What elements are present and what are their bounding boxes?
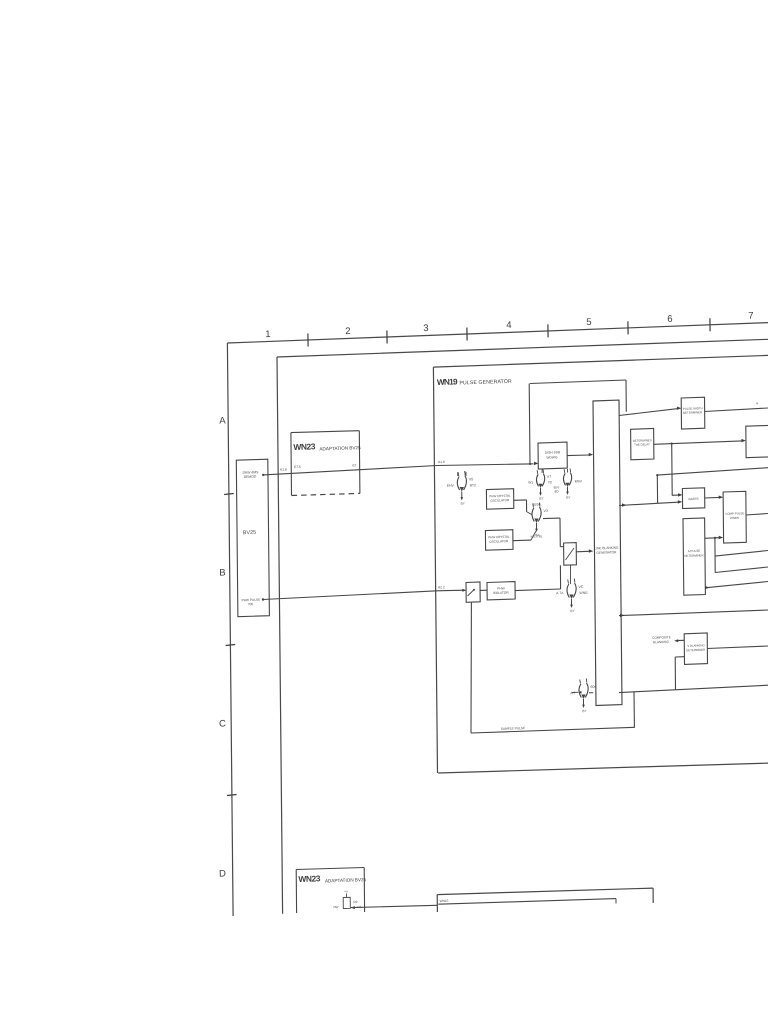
svg-text:3: 3	[423, 323, 429, 334]
svg-text:DETERMINER: DETERMINER	[686, 648, 705, 653]
svg-text:BV25: BV25	[243, 530, 256, 536]
svg-text:KTL/TBL: KTL/TBL	[530, 534, 542, 538]
svg-text:4: 4	[506, 320, 512, 331]
svg-text:SAMPLE PULSE: SAMPLE PULSE	[501, 726, 525, 731]
svg-text:1: 1	[265, 329, 271, 340]
svg-text:GENERATOR: GENERATOR	[596, 550, 617, 555]
svg-text:W1: W1	[528, 480, 533, 484]
svg-text:B: B	[219, 567, 226, 578]
svg-text:WNDR: WNDR	[730, 516, 739, 520]
svg-text:C: C	[219, 718, 226, 729]
svg-text:WDWG: WDWG	[546, 455, 558, 459]
svg-text:E7.5: E7.5	[294, 465, 301, 469]
svg-text:60/50: 60/50	[532, 502, 540, 506]
svg-text:7D: 7D	[548, 480, 553, 484]
svg-text:DETERMINER: DETERMINER	[684, 553, 703, 558]
svg-text:V5: V5	[469, 477, 474, 481]
svg-text:VC: VC	[578, 585, 584, 589]
svg-text:MSV: MSV	[575, 479, 583, 483]
svg-text:OSCILLATOR: OSCILLATOR	[489, 539, 509, 544]
svg-text:EHV: EHV	[447, 483, 455, 487]
svg-text:DEMOD: DEMOD	[244, 475, 257, 479]
svg-text:K1.8: K1.8	[438, 460, 445, 464]
svg-text:WN15: WN15	[439, 899, 448, 903]
svg-text:60s: 60s	[590, 685, 596, 689]
svg-text:WNG: WNG	[579, 591, 588, 595]
svg-text:K1.6: K1.6	[280, 467, 287, 471]
svg-text:WN23: WN23	[293, 441, 316, 452]
svg-text:2: 2	[345, 326, 351, 337]
svg-text:WN19: WN19	[437, 377, 458, 387]
svg-text:700: 700	[248, 602, 254, 606]
svg-text:BT2: BT2	[470, 483, 476, 487]
svg-text:A.7: A.7	[570, 691, 575, 695]
svg-text:V7: V7	[547, 475, 552, 479]
svg-text:DISH SSB: DISH SSB	[545, 450, 561, 455]
svg-text:6: 6	[667, 314, 673, 325]
svg-text:V3: V3	[543, 509, 548, 513]
svg-text:A.7A: A.7A	[556, 591, 564, 595]
svg-text:DETERMINER: DETERMINER	[683, 410, 702, 415]
svg-text:E7: E7	[352, 463, 356, 467]
svg-text:GATES: GATES	[688, 497, 698, 501]
svg-text:A: A	[219, 415, 226, 426]
svg-text:ISOLATOR: ISOLATOR	[493, 591, 510, 596]
svg-text:7: 7	[748, 311, 754, 322]
svg-text:NW: NW	[333, 905, 338, 909]
svg-text:5: 5	[586, 317, 592, 328]
svg-text:OSCILLATOR: OSCILLATOR	[490, 498, 510, 503]
svg-text:K2.2: K2.2	[438, 585, 445, 589]
svg-text:D: D	[219, 868, 226, 879]
svg-text:+v: +v	[344, 889, 348, 893]
svg-text:R2: R2	[353, 900, 357, 904]
svg-text:WN23: WN23	[298, 873, 321, 884]
svg-text:THE DELAY: THE DELAY	[634, 442, 650, 447]
svg-text:BLANKING: BLANKING	[653, 640, 669, 645]
